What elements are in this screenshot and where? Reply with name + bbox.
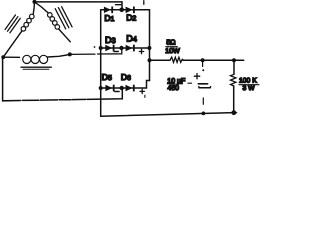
junction resistor R2 / output wire <box>232 58 236 62</box>
wire row 1 (D1/D2 rail) <box>101 9 150 11</box>
label R2 value 100K / 3W <box>239 77 259 91</box>
polarity mark minus (row 3) <box>115 91 119 93</box>
diode D2 <box>126 7 135 14</box>
junction row2 / phase B <box>119 46 123 50</box>
label D6 <box>121 72 131 82</box>
capacitor C1 10uF 450V electrolytic <box>194 60 210 104</box>
core hatch (left winding) <box>5 15 20 33</box>
winding L2 (right side of delta) <box>35 2 96 48</box>
label D1 <box>104 13 114 23</box>
negative rail (bottom) <box>101 113 237 117</box>
junction capacitor / output wire <box>201 58 205 62</box>
svg-text:D3: D3 <box>105 35 116 45</box>
diode D6 <box>126 85 135 92</box>
label R1 value 5 ohm / 10W <box>165 39 180 55</box>
wire bottom-right phase (node B to D3/D4 junction) <box>70 48 122 54</box>
label D5 <box>102 72 112 82</box>
junction row1 / phase A <box>119 8 124 13</box>
label D2 <box>126 13 136 23</box>
core bars (bottom winding) <box>21 67 51 69</box>
junction positive bus / output wire <box>148 58 152 62</box>
wire row 3 (D5/D6 rail with hook to positive bus) <box>101 81 150 89</box>
diode D1 <box>104 7 113 14</box>
junction row2 / negative bus <box>99 46 103 50</box>
polarity mark minus (row 2) <box>114 51 118 53</box>
label C1 value 10uF / 450 <box>167 78 192 92</box>
diode D4 <box>126 45 135 52</box>
node C (delta bottom-left corner) <box>1 55 5 59</box>
junction row3 / negative bus <box>99 86 103 90</box>
winding L1 (left side of delta) <box>3 2 34 57</box>
output wire (positive) <box>150 59 244 61</box>
winding L3 (bottom side of delta) <box>3 55 70 64</box>
junction capacitor / negative rail <box>202 112 206 116</box>
polarity mark plus (row 2) <box>139 49 143 53</box>
svg-text:450: 450 <box>168 85 180 92</box>
svg-text:D4: D4 <box>126 34 137 44</box>
wire row 2 (D3/D4 rail) <box>101 47 150 49</box>
negative bus (left vertical) <box>100 10 102 116</box>
wire bottom-left phase (node C to D5/D6 junction) <box>3 57 123 101</box>
core hatch (right winding) <box>55 7 72 29</box>
label D4 <box>126 34 137 44</box>
svg-text:3 W: 3 W <box>243 85 256 92</box>
polarity mark plus (row 3) <box>140 89 145 97</box>
svg-text:10W: 10W <box>165 48 180 55</box>
svg-text:5Ω: 5Ω <box>166 39 175 46</box>
polarity mark plus (row 1, clipped at top) <box>143 1 145 5</box>
resistor R2 100K 3W <box>231 60 236 112</box>
diode D3 <box>105 45 114 52</box>
diode D5 <box>105 85 114 92</box>
label D3 <box>105 35 116 45</box>
positive bus (right vertical) <box>149 10 151 81</box>
svg-text:100 K: 100 K <box>239 77 257 84</box>
polarity mark minus (row 1) <box>116 4 121 6</box>
resistor R1 5 ohm 10W <box>170 57 183 62</box>
wire apex to D1/D2 junction <box>35 2 123 10</box>
junction row2 / positive bus <box>147 46 151 50</box>
node A (delta apex) <box>32 0 36 4</box>
node B (delta bottom-right corner) <box>68 52 72 56</box>
junction row3 / phase C <box>120 86 124 90</box>
junction resistor R2 / negative rail <box>231 110 236 115</box>
